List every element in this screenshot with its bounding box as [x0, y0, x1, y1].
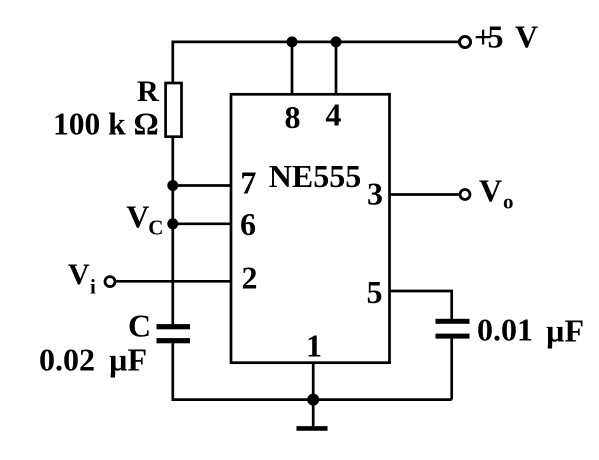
ground stub wire: [312, 400, 315, 427]
svg-text:0.02: 0.02: [39, 342, 95, 378]
node label Vi: [68, 258, 96, 298]
svg-text:5: 5: [367, 274, 383, 310]
svg-text:V: V: [68, 258, 90, 291]
svg-text:1: 1: [306, 328, 322, 364]
wire pin 3 output: [390, 193, 459, 196]
junction dot at ground node: [307, 394, 319, 406]
capacitor C2 top plate: [436, 319, 470, 324]
capacitor C top plate: [157, 324, 191, 329]
junction dot at pin 8 top rail: [287, 36, 298, 47]
svg-text:NE555: NE555: [269, 158, 361, 194]
svg-text:V: V: [126, 198, 149, 234]
svg-text:8: 8: [285, 99, 301, 135]
svg-text:C: C: [128, 308, 151, 344]
wire pin 2 input: [116, 280, 231, 283]
svg-text:5: 5: [488, 19, 504, 55]
svg-text:V: V: [479, 173, 502, 209]
wire top rail with corner down to resistor R: [173, 42, 458, 83]
svg-text:V: V: [515, 19, 538, 55]
svg-text:µF: µF: [109, 342, 147, 378]
svg-text:R: R: [137, 75, 159, 108]
value label 0.02 uF: [39, 342, 147, 378]
value label 0.01 uF: [477, 311, 584, 348]
wire pin 6 stub: [173, 222, 231, 225]
resistor R body: [166, 83, 182, 137]
svg-text:100 k Ω: 100 k Ω: [53, 107, 159, 142]
junction dot at pin 4 top rail: [331, 36, 342, 47]
node Vo output terminal circle: [460, 190, 470, 200]
svg-text:C: C: [148, 216, 163, 240]
node label VC: [126, 198, 163, 239]
svg-text:3: 3: [367, 176, 383, 212]
junction dot at node VC: [167, 218, 178, 229]
node +5 V terminal circle: [460, 37, 471, 48]
node label +5 V: [474, 19, 538, 55]
svg-text:4: 4: [325, 97, 341, 133]
junction dot at pin 7 node: [167, 180, 178, 191]
svg-text:i: i: [90, 275, 96, 299]
op-amp U1 NE555 IC box: [231, 94, 390, 362]
node Vi input terminal circle: [105, 277, 115, 287]
svg-text:6: 6: [240, 206, 256, 242]
wire capacitor C2 to bottom rail: [450, 339, 453, 400]
wire pin 1 to bottom rail: [312, 363, 315, 400]
wire left vertical from resistor down to capacitor C: [171, 137, 174, 325]
wire bottom rail with corner up to capacitor C: [173, 343, 452, 399]
wire pin 4 to top rail: [335, 42, 338, 94]
capacitor C bottom plate: [157, 338, 191, 343]
svg-text:µF: µF: [546, 313, 584, 349]
wire pin 7 stub: [173, 184, 231, 187]
wire pin 8 to top rail: [291, 42, 294, 94]
wire pin 5 with corner down to capacitor C2: [390, 291, 452, 319]
svg-text:0.01: 0.01: [477, 311, 533, 347]
capacitor C2 bottom plate: [436, 334, 470, 339]
ground symbol bar: [297, 426, 328, 431]
node label Vo: [479, 173, 514, 214]
svg-text:7: 7: [240, 165, 256, 201]
svg-text:2: 2: [242, 260, 258, 296]
svg-text:o: o: [503, 190, 514, 214]
